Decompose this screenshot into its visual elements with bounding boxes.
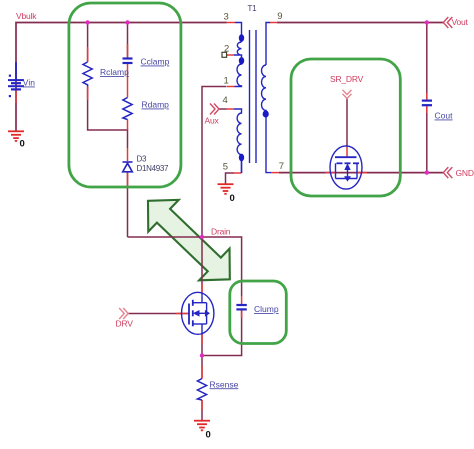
wire: D3 anode down to Drain rail bbox=[127, 172, 129, 237]
capacitor Clump bbox=[236, 305, 246, 309]
pin stub: Cout top bbox=[426, 93, 428, 100]
svg-text:D1N4937: D1N4937 bbox=[137, 164, 170, 173]
ground (Rsense) bbox=[194, 421, 210, 431]
wire: DRV gate wire bbox=[128, 313, 189, 315]
T1 secondary winding pins 9-7 bbox=[266, 23, 270, 66]
svg-text:GND: GND bbox=[456, 168, 474, 178]
T1 phase dot aux bbox=[239, 154, 244, 161]
resistor Rclamp bbox=[83, 62, 92, 87]
node: GND/Cout junction bbox=[425, 170, 429, 174]
svg-text:0: 0 bbox=[20, 139, 25, 150]
pin stub: M1 gate bbox=[176, 313, 189, 315]
capacitor Cout bbox=[422, 101, 432, 106]
pin stub: Rclamp top bbox=[87, 47, 89, 62]
MOSFET M2 (sync rectifier, rotated) bbox=[330, 146, 362, 189]
svg-text:Rclamp: Rclamp bbox=[100, 67, 129, 77]
wire: Vout top rail from pin9 bbox=[277, 22, 443, 24]
pin stub: Cclamp top bbox=[127, 44, 129, 58]
node: Vbulk/Rclamp bbox=[85, 20, 89, 24]
svg-text:2: 2 bbox=[224, 44, 229, 55]
pin stub: transformer pin3 bbox=[227, 22, 236, 24]
pin stub: M1 drain bbox=[201, 284, 203, 293]
svg-text:9: 9 bbox=[277, 11, 282, 22]
wire: MOSFET source to node bbox=[201, 334, 203, 356]
svg-text:1: 1 bbox=[224, 76, 229, 87]
pin stub: battery bottom bbox=[15, 90, 17, 104]
svg-text:DRV: DRV bbox=[116, 319, 134, 329]
pin stub: SR source side bbox=[325, 172, 336, 174]
svg-text:D3: D3 bbox=[137, 155, 147, 164]
T1 phase dot secondary bbox=[263, 110, 269, 117]
svg-text:4: 4 bbox=[223, 95, 228, 106]
T1 phase dot winding1 bbox=[239, 34, 244, 41]
diode D3 D1N4937 bbox=[123, 162, 133, 172]
resistor Rdamp bbox=[123, 98, 132, 120]
wire: Cout branch vertical bbox=[426, 23, 428, 101]
wire: SR_DRV gate wire bbox=[346, 99, 348, 148]
svg-text:Cclamp: Cclamp bbox=[141, 57, 170, 67]
transformer T1 bbox=[234, 23, 271, 174]
pin stub: transformer pin2 bbox=[227, 54, 235, 56]
pin stub: Cout bottom bbox=[426, 106, 428, 113]
wire: Vbulk top rail bbox=[16, 23, 227, 132]
wire: Cclamp branch from top rail bbox=[127, 23, 129, 59]
svg-text:Vout: Vout bbox=[452, 17, 469, 27]
M1 bulk arrow bbox=[193, 310, 200, 317]
node: source/Rsense junction bbox=[200, 353, 204, 357]
svg-text:0: 0 bbox=[230, 193, 235, 204]
svg-text:T1: T1 bbox=[248, 4, 258, 13]
pin stub: Cclamp bottom to Rdamp top bbox=[127, 64, 129, 98]
pin stub: transformer pin4 bbox=[227, 108, 235, 110]
capacitor Cclamp bbox=[123, 59, 133, 64]
pin stub: D3 anode bbox=[127, 172, 129, 186]
pin stub: Rclamp bottom bbox=[87, 87, 89, 101]
T1 aux winding pins 4-5 bbox=[234, 109, 242, 173]
wire: drain vertical to MOSFET M1 bbox=[201, 237, 203, 292]
svg-text:Clump: Clump bbox=[254, 304, 279, 314]
wire: Rsense to ground bbox=[201, 400, 203, 421]
svg-text:Aux: Aux bbox=[205, 116, 220, 126]
pin stub: Rsense bottom bbox=[201, 400, 203, 410]
pin stub: Clump bottom bbox=[241, 310, 243, 318]
port Vout (off-page connector) bbox=[443, 17, 452, 28]
battery V1 Vin bbox=[8, 62, 24, 89]
pin stub: transformer pin5 bbox=[234, 172, 242, 174]
MOSFET M1 (low-side switch) bbox=[182, 292, 214, 334]
svg-text:Drain: Drain bbox=[211, 227, 231, 237]
svg-text:Vbulk: Vbulk bbox=[16, 11, 37, 21]
annotation: green box around Clump bbox=[230, 281, 286, 344]
pin stub: transformer pin7 bbox=[271, 172, 279, 174]
wire: Cout to GND rail bbox=[426, 106, 428, 173]
pin stub: transformer pin1 bbox=[227, 86, 235, 88]
pin stub: transformer pin9 bbox=[270, 22, 278, 24]
ground (battery) bbox=[8, 131, 24, 141]
svg-text:Rsense: Rsense bbox=[210, 379, 239, 389]
svg-text:0: 0 bbox=[206, 430, 211, 441]
pin stub: Rsense top bbox=[201, 366, 203, 379]
pin stub: SR gate bbox=[346, 147, 348, 157]
M2 body diode bbox=[344, 176, 351, 181]
annotation: green box around SR MOSFET bbox=[291, 59, 400, 196]
pin stub: D3 cathode bbox=[127, 148, 129, 161]
annotation: big green double arrow bbox=[133, 185, 245, 295]
M1 body diode bbox=[205, 310, 210, 317]
pin stub: M1 source bbox=[201, 334, 203, 344]
pin stub: Clump top bbox=[241, 296, 243, 305]
svg-text:Vin: Vin bbox=[23, 78, 35, 88]
wire: Aux wire to pin4 bbox=[219, 108, 227, 110]
wire: Clump bottom to source node bbox=[202, 310, 242, 356]
T1 primary winding pins 3-2-1 bbox=[235, 23, 242, 43]
annotation: green box around RCD clamp bbox=[69, 3, 181, 187]
wire: clamp bottom joining wire bbox=[88, 87, 128, 149]
M2 bulk arrow bbox=[344, 163, 350, 170]
T1 pin2 unconnected square bbox=[222, 52, 227, 57]
ground (transformer pin5) bbox=[218, 184, 234, 194]
svg-text:5: 5 bbox=[223, 162, 228, 173]
wire: Rclamp branch from top rail bbox=[87, 23, 89, 63]
node: Vbulk/Cclamp bbox=[125, 20, 129, 24]
port GND (off-page connector) bbox=[443, 167, 452, 178]
resistor Rsense bbox=[197, 379, 206, 401]
wire: GND bottom rail from pin7 bbox=[279, 172, 443, 174]
svg-text:SR_DRV: SR_DRV bbox=[330, 74, 364, 84]
pin stub: SR drain side bbox=[357, 172, 367, 174]
svg-text:Rdamp: Rdamp bbox=[142, 100, 170, 110]
node: Vout/Cout junction bbox=[425, 20, 429, 24]
T1 core lines bbox=[249, 30, 251, 163]
wire: source node to Rsense bbox=[201, 356, 203, 379]
wire: pin5 to ground bbox=[226, 173, 235, 184]
wire: Drain horizontal rail bbox=[128, 237, 242, 296]
T1 phase dot winding2 bbox=[239, 57, 244, 64]
port SR_DRV (off-page connector) bbox=[343, 90, 352, 99]
svg-text:3: 3 bbox=[224, 12, 229, 23]
battery polarity dots bbox=[9, 75, 11, 77]
port Aux (off-page connector) bbox=[210, 104, 219, 115]
pin stub: Rdamp bottom bbox=[127, 120, 129, 131]
svg-text:Cout: Cout bbox=[435, 111, 454, 121]
wire: transformer pin1 to drain vertical bbox=[202, 87, 227, 238]
svg-text:7: 7 bbox=[279, 161, 284, 172]
port DRV (off-page connector) bbox=[119, 308, 128, 319]
node: Drain junction bbox=[200, 235, 204, 239]
